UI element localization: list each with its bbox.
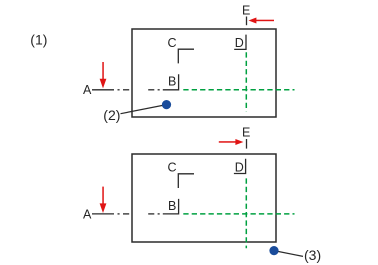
centerline dash-dot A (bottom) <box>92 213 160 215</box>
green dashed vertical line (top) <box>245 52 247 111</box>
blue point dot (top) <box>162 100 171 109</box>
svg-text:A: A <box>83 208 92 222</box>
leader line from dot to (3) <box>274 251 303 257</box>
rectangle outline (top figure) <box>132 29 276 117</box>
leader line from (2) to dot <box>121 105 167 114</box>
centerline dash-dot A (top) <box>92 89 160 91</box>
corner bracket at C (bottom) <box>178 174 194 188</box>
green dashed vertical line (bottom) <box>245 178 247 248</box>
corner bracket at B (top) <box>163 74 179 90</box>
svg-text:A: A <box>83 83 92 97</box>
svg-text:(1): (1) <box>30 32 47 48</box>
tick below E (top) <box>246 17 248 26</box>
svg-text:B: B <box>168 199 176 213</box>
svg-text:E: E <box>242 126 250 140</box>
svg-text:B: B <box>168 75 176 89</box>
svg-text:(2): (2) <box>103 107 120 123</box>
tick below E (bottom) <box>246 139 248 149</box>
red down arrow at A (top) <box>100 62 107 88</box>
svg-text:C: C <box>168 160 177 174</box>
corner bracket at D (top) <box>234 35 246 50</box>
corner bracket at D (bottom) <box>234 159 246 174</box>
red left arrow at E (top) <box>249 18 275 24</box>
rectangle outline (bottom figure) <box>132 154 276 242</box>
corner bracket at C (top) <box>178 49 194 63</box>
green dashed horizontal line (top) <box>183 89 294 91</box>
red down arrow at A (bottom) <box>100 187 107 213</box>
svg-text:(3): (3) <box>304 247 321 263</box>
corner bracket at B (bottom) <box>163 199 179 214</box>
svg-text:D: D <box>235 160 244 174</box>
svg-text:E: E <box>242 4 250 18</box>
blue point dot (bottom) <box>269 246 278 255</box>
red right arrow at E (bottom) <box>219 139 244 145</box>
svg-text:D: D <box>235 36 244 50</box>
green dashed horizontal line (bottom) <box>183 213 294 215</box>
svg-text:C: C <box>168 36 177 50</box>
